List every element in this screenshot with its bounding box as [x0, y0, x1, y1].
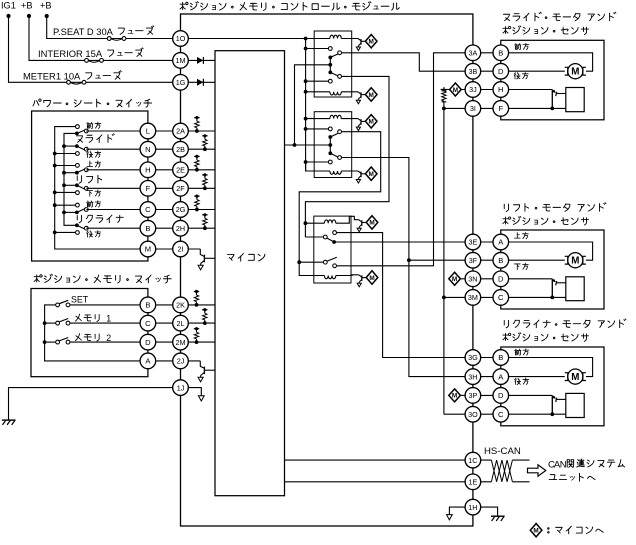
svg-text:HS-CAN: HS-CAN: [484, 446, 521, 457]
recliner position sensor element: [566, 393, 584, 417]
position memory control module box: [181, 14, 473, 526]
slide sensor return wire: [473, 107, 566, 109]
svg-text:3G: 3G: [468, 353, 478, 362]
terminal 2M: [173, 334, 189, 350]
wire resistor line to 3O: [444, 413, 473, 415]
wire 2K to microcomputer: [181, 304, 216, 306]
svg-text:D: D: [498, 391, 504, 400]
node +B (2): [45, 14, 49, 18]
motor M of recliner: [568, 369, 583, 384]
svg-text:N: N: [145, 145, 150, 154]
wire 1H right to chassis ground: [473, 507, 498, 516]
slide position sensor element: [566, 88, 584, 112]
transistor + microcomputer diamond for RY1 upper coil: [358, 39, 361, 41]
fuse P.SEAT D 30A: [107, 37, 111, 41]
terminal C: [140, 202, 156, 218]
svg-text:3I: 3I: [470, 104, 476, 113]
wire 2J from memory switch A: [181, 360, 201, 362]
terminal 2E: [173, 162, 189, 178]
bus junction y=91.8: [304, 90, 308, 94]
terminal 2K: [173, 297, 189, 313]
RY2 armature pivots: [329, 137, 331, 153]
lift switch upper arm: [77, 169, 86, 173]
svg-text:M: M: [369, 39, 374, 46]
svg-text:F: F: [146, 184, 151, 193]
arm bus link y=172.7: [64, 172, 77, 174]
switch contact feed line y=165.5: [55, 165, 76, 167]
arrow to CAN system units: [528, 465, 546, 476]
svg-text:H: H: [498, 85, 503, 94]
slide switch lower arm: [77, 146, 86, 150]
transistor + microcomputer diamond for RY3 upper coil: [359, 220, 362, 222]
microcomputer diamond at 3J: [444, 89, 473, 91]
label power seat switch: [33, 99, 152, 107]
svg-text:SET: SET: [71, 295, 89, 305]
RY2 coil (lower): [306, 162, 330, 171]
power seat switch box: [32, 111, 148, 261]
svg-text:IG1: IG1: [1, 1, 16, 11]
svg-text:B: B: [498, 353, 503, 362]
svg-text:2M: 2M: [176, 338, 186, 347]
terminal 2L: [173, 315, 189, 331]
slide motor wire (rev): [473, 70, 565, 72]
wire RY1 lower arm to RY3 upper feed: [305, 76, 389, 237]
svg-text:+B: +B: [40, 1, 52, 11]
bus junction y=128.9: [304, 127, 308, 131]
terminal 3N: [465, 271, 481, 287]
pull-up resistor at 2M: [194, 328, 199, 330]
wire M to 2I: [148, 248, 200, 250]
microcomputer diamond at 3N: [461, 278, 473, 280]
wire +B to INTERIOR fuse to 1M: [29, 16, 181, 60]
RY1 coil (upper): [330, 35, 341, 38]
terminal H: [140, 162, 156, 178]
RY1 armature pivots: [329, 57, 331, 72]
svg-text:1J: 1J: [177, 383, 185, 392]
pull-up resistor at 2K: [194, 291, 199, 293]
terminal 1E: [465, 474, 481, 490]
memory switch bus: [45, 305, 181, 361]
svg-text:M: M: [533, 528, 538, 535]
terminal 3G: [465, 350, 481, 366]
svg-text:1G: 1G: [176, 78, 186, 87]
wire 1O feed to relay bus and RY1 coil: [181, 38, 330, 40]
label lift motor and position sensor: [504, 203, 606, 212]
RY2 lower armature: [330, 153, 338, 157]
transistor + microcomputer diamond for RY1 lower coil: [358, 92, 361, 94]
terminal A: [140, 353, 156, 369]
switch contact circles: [84, 129, 88, 133]
recliner motor wire (rev): [473, 376, 565, 378]
terminal B: [493, 350, 509, 366]
svg-text:3O: 3O: [468, 410, 478, 419]
svg-text:M: M: [369, 171, 374, 178]
terminal 3A: [465, 45, 481, 61]
switch contact circles: [84, 208, 88, 212]
motor M of lift: [568, 253, 583, 268]
transistor Q2 at 2J: [200, 361, 204, 369]
terminal 3H: [465, 369, 481, 385]
slide motor and position sensor box: [501, 40, 604, 120]
svg-text:3H: 3H: [468, 372, 477, 381]
terminal 3M: [465, 290, 481, 306]
wire RY3 lower throw to 3A: [337, 53, 473, 266]
terminal B: [493, 45, 509, 61]
svg-text:M: M: [453, 87, 458, 94]
svg-text:1: 1: [106, 314, 111, 324]
RY1 upper contact feed: [306, 48, 329, 50]
svg-text:3F: 3F: [469, 256, 478, 265]
RY2 upper contact feed: [306, 128, 329, 130]
wire RY2 upper arm to RY3 lower feed: [299, 132, 381, 276]
svg-text:M: M: [369, 220, 374, 227]
RY2 coil (upper): [306, 118, 330, 120]
lift motor and position sensor box: [501, 230, 604, 309]
terminal 3P: [465, 388, 481, 404]
recliner motor wire (fwd): [473, 358, 593, 377]
memory 1 switch: [56, 321, 60, 325]
svg-text:3N: 3N: [468, 274, 477, 283]
labels in sensor boxes: [515, 43, 529, 49]
svg-text:M: M: [145, 245, 151, 254]
wire RY2 lower arm to 3F and 3H: [342, 158, 473, 377]
terminal F: [140, 181, 156, 197]
terminal 1J: [173, 380, 189, 396]
terminal A: [493, 234, 509, 250]
recliner switch upper arm: [77, 208, 86, 212]
svg-text:2K: 2K: [176, 301, 185, 310]
wire B to module: [86, 227, 180, 229]
switch contact feed line y=153.5: [55, 153, 76, 155]
terminal 2J: [173, 353, 189, 369]
svg-text:2B: 2B: [176, 145, 185, 154]
wire RY1 common to microcomputer: [295, 65, 331, 145]
svg-text:3M: 3M: [468, 293, 478, 302]
diode D2 at 1G: [181, 81, 216, 83]
wire microcomputer to RY2 common: [285, 144, 331, 146]
svg-text:D: D: [498, 67, 504, 76]
labels in power seat switch: [87, 122, 101, 128]
transistor Q1 at 2I: [200, 249, 204, 257]
svg-text:F: F: [498, 104, 503, 113]
recliner motor and position sensor box: [501, 347, 604, 426]
svg-text:3P: 3P: [469, 391, 478, 400]
HS-CAN twisted pair: [473, 459, 492, 461]
svg-text:3B: 3B: [469, 67, 478, 76]
svg-text:L: L: [146, 127, 150, 136]
motor M of slide: [568, 64, 583, 79]
RY3 lower switch: [299, 261, 323, 263]
terminal B: [140, 297, 156, 313]
recliner sensor return wire: [473, 413, 566, 415]
relay feed bus: [305, 39, 307, 172]
pull-up resistor at 2L: [202, 309, 207, 311]
label position memory switch: [34, 274, 171, 283]
terminal 3E: [465, 234, 481, 250]
relay box RY2: [314, 112, 352, 178]
svg-text:2: 2: [106, 333, 111, 343]
terminal N: [140, 141, 156, 157]
wire 2H to microcomputer: [181, 227, 216, 229]
terminal 3F: [465, 252, 481, 268]
terminal 2F: [173, 181, 189, 197]
svg-text:C: C: [145, 205, 151, 214]
wire RY3 upper throw to 3G: [337, 233, 473, 358]
svg-text:N: N: [560, 459, 567, 470]
node IG1: [6, 14, 10, 18]
svg-text:M: M: [452, 276, 457, 283]
RY3 coil (lower): [324, 276, 335, 279]
wire L to module: [86, 130, 180, 132]
lift motor wire (fwd): [473, 242, 593, 260]
RY1 lower armature: [330, 72, 338, 76]
terminal 3J: [465, 82, 481, 98]
svg-text:2A: 2A: [176, 127, 185, 136]
pull-up resistor at 2G: [194, 195, 199, 197]
label CAN system units: [548, 459, 625, 470]
terminal 2B: [173, 141, 189, 157]
svg-text:B: B: [145, 224, 150, 233]
terminal C: [493, 406, 509, 422]
svg-text:1H: 1H: [468, 503, 477, 512]
label microcomputer: [228, 253, 265, 261]
microcomputer diamond at 3P: [461, 394, 473, 396]
svg-text:B: B: [145, 301, 150, 310]
terminal 1G: [173, 75, 189, 91]
slide switch upper arm: [77, 130, 86, 134]
fuse INTERIOR 15A: [85, 59, 89, 63]
bus junction y=162.0: [304, 160, 308, 164]
bus junction y=48.5: [304, 47, 308, 51]
wire H to module: [86, 169, 180, 171]
terminal 1M: [173, 53, 189, 69]
terminal D: [140, 334, 156, 350]
transistor + microcomputer diamond for RY2 lower coil: [358, 171, 361, 173]
lift sensor return wire: [473, 296, 566, 298]
RY2 lower contact feed: [306, 161, 329, 163]
terminal 1O: [173, 31, 189, 47]
terminal 2A: [173, 123, 189, 139]
ground arrow at 1J internal: [181, 388, 202, 396]
svg-text:+B: +B: [21, 1, 33, 11]
wire 2L to microcomputer: [181, 322, 216, 324]
svg-text:2I: 2I: [178, 245, 184, 254]
terminal D: [493, 388, 509, 404]
wire F to module: [86, 187, 180, 189]
wire +B to P.SEAT fuse to 1O: [47, 16, 181, 39]
wire 2A to microcomputer: [181, 130, 216, 132]
RY1 lower contact feed: [306, 80, 329, 82]
svg-text:2G: 2G: [176, 205, 186, 214]
RY3 coil (upper): [305, 222, 324, 224]
svg-text:C: C: [498, 293, 504, 302]
wire 2E to microcomputer: [181, 169, 216, 171]
lift switch lower arm: [77, 185, 86, 189]
pull-up resistor at 2F: [202, 174, 207, 176]
svg-text:METER1 10A: METER1 10A: [23, 71, 81, 82]
wire IG1 to METER1 fuse to 1G: [9, 16, 181, 82]
RY2 upper armature: [330, 133, 338, 137]
legend microcomputer diamond: [530, 524, 542, 537]
svg-text:3E: 3E: [469, 238, 478, 247]
svg-text:H: H: [145, 165, 150, 174]
svg-text:3A: 3A: [469, 48, 478, 57]
svg-text:M: M: [369, 119, 374, 126]
terminal B: [140, 220, 156, 236]
node +B (1): [27, 14, 31, 18]
wire 3I: [444, 107, 473, 109]
slide motor wire (fwd): [473, 53, 593, 71]
switch contact feed line y=232.4: [55, 231, 76, 233]
svg-text:D: D: [498, 274, 504, 283]
memory 2 switch: [56, 340, 60, 344]
terminal D: [493, 271, 509, 287]
power seat switch arm bus: [64, 133, 77, 225]
RY1 coil (lower): [306, 91, 330, 93]
lift position sensor element: [566, 277, 584, 301]
pull-up resistor at 2A: [194, 117, 199, 119]
wire to 3F: [409, 259, 473, 261]
terminal D: [493, 63, 509, 79]
wire microcomputer to 1E: [285, 481, 473, 483]
terminal 3B: [465, 63, 481, 79]
arm bus link y=185.3: [64, 184, 77, 186]
position memory switch box: [31, 289, 148, 377]
svg-text:B: B: [498, 48, 503, 57]
wire 2B to microcomputer: [181, 148, 216, 150]
terminal 2I: [173, 241, 189, 257]
svg-text:2L: 2L: [177, 319, 185, 328]
terminal C: [493, 290, 509, 306]
svg-text:D: D: [145, 338, 151, 347]
wire RY1 upper arm to 3B: [342, 53, 473, 71]
sensor supply resistor line: [443, 87, 445, 90]
pull-up resistor at 2B: [202, 135, 207, 137]
svg-text:M: M: [452, 393, 457, 400]
label slide motor and position sensor: [503, 12, 615, 21]
arm bus link y=146.1: [64, 145, 77, 147]
terminal L: [140, 123, 156, 139]
svg-text:2J: 2J: [177, 357, 185, 366]
lift sensor wiper wire: [473, 278, 552, 280]
wire 3M: [444, 296, 473, 298]
pull-up resistor at 2E: [194, 155, 199, 157]
RY3 upper switch: [305, 236, 323, 238]
terminal 2H: [173, 220, 189, 236]
svg-text:P.SEAT D 30A: P.SEAT D 30A: [53, 26, 114, 37]
recliner switch lower arm: [77, 225, 86, 229]
transistor + microcomputer diamond for RY2 upper coil: [358, 119, 361, 121]
pull-up resistor at 2H: [202, 214, 207, 216]
svg-text:1M: 1M: [176, 56, 186, 65]
svg-text:INTERIOR 15A: INTERIOR 15A: [38, 48, 103, 59]
switch contact circles: [84, 168, 88, 172]
microcomputer box U1: [215, 51, 285, 496]
arm bus link y=212.4: [64, 211, 77, 213]
terminal 3O: [465, 406, 481, 422]
terminal 2G: [173, 202, 189, 218]
terminal A: [493, 369, 509, 385]
svg-text:C: C: [498, 410, 504, 419]
wire N to module: [86, 148, 180, 150]
fuse METER1 10A: [67, 80, 71, 84]
svg-text:B: B: [498, 256, 503, 265]
terminal 1C: [465, 452, 481, 468]
lift motor wire (rev): [473, 259, 565, 261]
svg-text:2H: 2H: [176, 224, 185, 233]
wire 2M to microcomputer: [181, 341, 216, 343]
diode D1 at 1M: [181, 59, 216, 61]
svg-text:1E: 1E: [469, 477, 478, 486]
terminal C: [140, 315, 156, 331]
terminal 3I: [465, 101, 481, 117]
wire 1H left ground arrow: [449, 507, 473, 514]
svg-text:2F: 2F: [176, 184, 185, 193]
svg-text:C: C: [145, 319, 151, 328]
RY1 upper armature: [330, 54, 338, 58]
power seat switch common bus (contacts): [55, 127, 148, 249]
terminal M: [140, 241, 156, 257]
wire microcomputer to 1C: [285, 459, 473, 461]
wire 2G to microcomputer: [181, 209, 216, 211]
wire C to module: [86, 209, 180, 211]
recliner sensor wiper wire: [473, 394, 552, 396]
svg-text:M: M: [571, 372, 579, 383]
relay box RY1 (slide): [314, 31, 352, 97]
slide sensor wiper wire: [473, 89, 552, 91]
label recliner motor and position sensor: [504, 319, 626, 328]
wire RY3 upper arm contact to 3E: [334, 241, 473, 243]
svg-text:M: M: [571, 256, 579, 267]
switch contact feed line y=205.2: [55, 204, 76, 206]
transistor + microcomputer diamond for RY3 lower coil: [359, 275, 362, 277]
svg-text:1O: 1O: [176, 34, 186, 43]
SET switch: [56, 303, 60, 307]
label position memory control module: [180, 2, 399, 11]
svg-text:1C: 1C: [468, 456, 477, 465]
chassis ground at 1H: [491, 515, 505, 517]
svg-text:3J: 3J: [469, 85, 477, 94]
svg-text:M: M: [369, 275, 374, 282]
bus junction y=81.2: [304, 79, 308, 83]
wire 1J to chassis ground: [9, 388, 181, 421]
bus junction y=38.5: [304, 37, 308, 41]
terminal 1H: [465, 499, 481, 515]
svg-text:M: M: [571, 67, 579, 78]
relay box RY3: [314, 216, 351, 283]
chassis ground at 1J: [2, 419, 16, 421]
svg-text:M: M: [369, 92, 374, 99]
svg-text:2E: 2E: [176, 165, 185, 174]
wire 2F to microcomputer: [181, 187, 216, 189]
terminal B: [493, 252, 509, 268]
terminal H: [493, 82, 509, 98]
bus junction y=118.6: [304, 117, 308, 121]
terminal F: [493, 101, 509, 117]
switch contact feed line y=192.4: [55, 191, 76, 193]
